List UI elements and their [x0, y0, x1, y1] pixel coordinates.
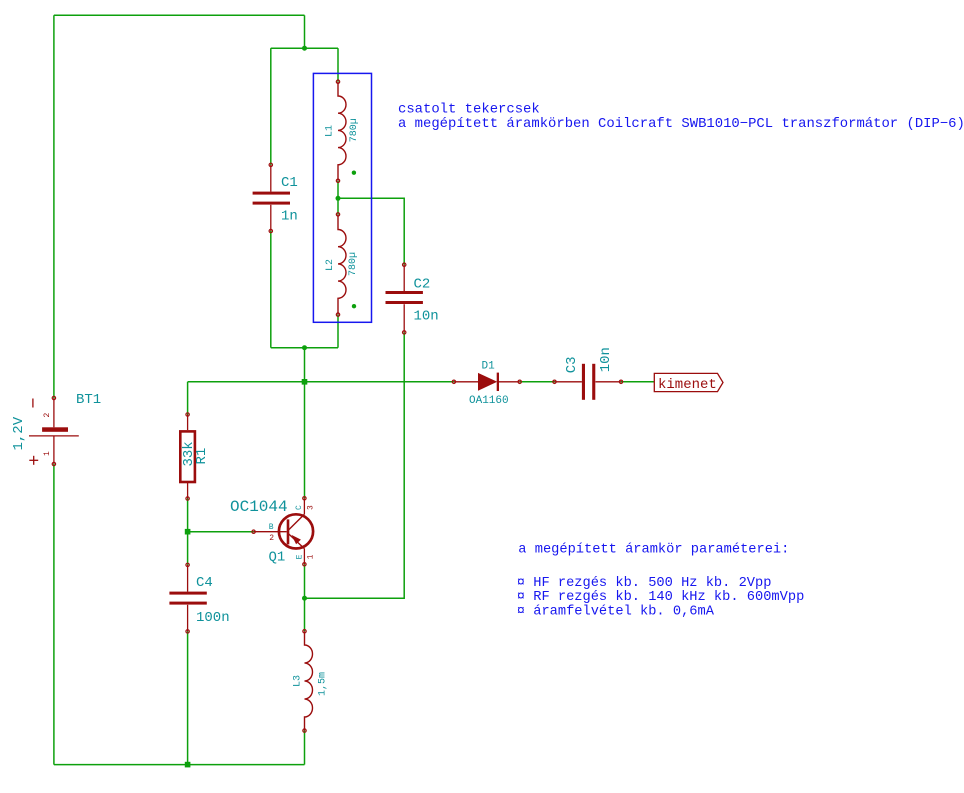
svg-text:¤ HF rezgés kb. 500 Hz kb. 2Vp: ¤ HF rezgés kb. 500 Hz kb. 2Vpp [517, 576, 772, 591]
wire L1-L2 midtap [337, 181, 339, 215]
pin Q1 collector [303, 497, 306, 500]
node emitter junction [302, 596, 307, 601]
inductor L3 [305, 631, 313, 730]
svg-text:1,2V: 1,2V [11, 416, 27, 450]
svg-text:D1: D1 [482, 360, 496, 372]
svg-text:Q1: Q1 [269, 550, 286, 566]
svg-text:2: 2 [43, 413, 52, 418]
svg-text:¤ áramfelvétel kb. 0,6mA: ¤ áramfelvétel kb. 0,6mA [517, 605, 715, 620]
pin C3-1 [553, 380, 556, 383]
wire collector feed vertical [304, 348, 306, 499]
node main junction [302, 379, 308, 385]
svg-text:¤ RF rezgés kb. 140 kHz kb. 60: ¤ RF rezgés kb. 140 kHz kb. 600mVpp [517, 590, 804, 605]
pin R1-1 [186, 413, 189, 416]
inductor L2 [338, 214, 346, 314]
svg-text:780µ: 780µ [348, 252, 359, 276]
svg-text:E: E [295, 554, 304, 559]
svg-text:OA1160: OA1160 [469, 395, 509, 407]
wire C1 top [270, 48, 272, 165]
pin C1-2 [269, 229, 272, 232]
pin C4-2 [186, 630, 189, 633]
transistor Q1 [254, 498, 314, 564]
inductor L1 [338, 82, 346, 181]
svg-text:1n: 1n [281, 209, 298, 225]
node base junction [185, 529, 191, 535]
pin R1-2 [186, 497, 189, 500]
wire R1 top [187, 382, 189, 415]
capacitor C1 [253, 165, 290, 231]
pin D1 anode [452, 380, 455, 383]
svg-text:L2: L2 [325, 259, 336, 271]
wire D1 to C3 [520, 381, 555, 383]
pin L3-1 [303, 630, 306, 633]
pin L3-2 [303, 729, 306, 732]
wire base horizontal [188, 531, 254, 533]
node L1 dot [352, 171, 356, 175]
wire C3 to kimenet [621, 381, 654, 383]
svg-text:C4: C4 [196, 575, 213, 591]
wire top branch horizontal [271, 47, 338, 49]
wire left outer vertical [53, 15, 55, 398]
pin C3-2 [619, 380, 622, 383]
pin L2-1 [336, 213, 339, 216]
pin Q1 emitter [303, 563, 306, 566]
node bottom branch junction [302, 345, 307, 350]
svg-text:BT1: BT1 [76, 392, 101, 408]
node midtap junction [336, 196, 341, 201]
wire L2 bottom [337, 315, 339, 348]
svg-text:3: 3 [307, 505, 316, 510]
pin Q1 base [252, 530, 255, 533]
transformer box [313, 73, 371, 322]
svg-text:L1: L1 [324, 125, 335, 137]
wire R1 bottom to C4 [187, 499, 189, 565]
wire C4 bottom [187, 631, 189, 764]
pin L1-1 [336, 80, 339, 83]
pin C4-1 [186, 563, 189, 566]
pin BT1-1 [52, 462, 55, 465]
battery plus mark [29, 459, 38, 461]
svg-text:100n: 100n [196, 610, 230, 626]
wire emitter to C2 bottom [305, 332, 405, 598]
capacitor C4 [169, 565, 206, 632]
node top branch junction [302, 46, 307, 51]
svg-text:a megépített áramkör paraméter: a megépített áramkör paraméterei: [518, 543, 789, 558]
node L2 dot [352, 304, 356, 308]
pin L1-2 [336, 179, 339, 182]
svg-text:R1: R1 [194, 448, 210, 465]
svg-text:C3: C3 [564, 356, 580, 373]
resistor R1 [180, 431, 195, 482]
svg-text:L3: L3 [292, 675, 303, 687]
wire bottom horizontal [54, 764, 305, 766]
pin C2-1 [403, 263, 406, 266]
wire main horizontal [188, 381, 454, 383]
svg-text:10n: 10n [414, 309, 439, 325]
wire midtap to C2 [338, 198, 404, 264]
node bottom junction [185, 762, 191, 768]
svg-text:kimenet: kimenet [658, 377, 717, 393]
pin C1-1 [269, 163, 272, 166]
svg-text:C1: C1 [281, 175, 298, 191]
svg-text:2: 2 [269, 534, 274, 543]
svg-text:OC1044: OC1044 [230, 498, 288, 516]
svg-text:10n: 10n [598, 347, 614, 372]
wire battery bottom [53, 464, 55, 765]
svg-text:1: 1 [43, 451, 52, 456]
battery BT1 [29, 398, 79, 465]
pin BT1-2 [52, 396, 55, 399]
wire L1 top [337, 48, 339, 81]
svg-text:780µ: 780µ [349, 118, 360, 142]
svg-text:1,5m: 1,5m [317, 672, 328, 696]
diode D1 [454, 373, 520, 391]
pin C2-2 [403, 331, 406, 334]
emitter arrow [292, 535, 301, 544]
pin D1 cathode [518, 380, 521, 383]
wire top feed vertical [304, 15, 306, 48]
svg-text:C2: C2 [414, 277, 431, 293]
capacitor C2 [386, 265, 423, 333]
capacitor C3 [555, 364, 622, 400]
wire L3 bottom [304, 731, 306, 765]
global label kimenet [654, 373, 723, 393]
wire C1 bottom [270, 231, 272, 348]
svg-text:1: 1 [306, 554, 315, 559]
wire bottom branch horizontal [271, 347, 338, 349]
battery minus mark [32, 399, 34, 408]
wire top horizontal [54, 14, 305, 16]
pin L2-2 [336, 313, 339, 316]
wire emitter down [304, 564, 306, 631]
svg-text:a megépített áramkörben Coilcr: a megépített áramkörben Coilcraft SWB101… [398, 116, 964, 132]
svg-text:C: C [295, 505, 304, 510]
svg-text:B: B [269, 523, 274, 532]
